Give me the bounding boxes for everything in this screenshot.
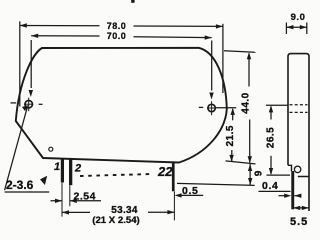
svg-text:70.0: 70.0 bbox=[107, 31, 127, 41]
svg-text:26.5: 26.5 bbox=[265, 127, 276, 148]
svg-text:9: 9 bbox=[253, 170, 264, 176]
svg-text:(21 X 2.54): (21 X 2.54) bbox=[92, 215, 139, 226]
svg-text:2-3.6: 2-3.6 bbox=[6, 178, 34, 192]
svg-text:22: 22 bbox=[157, 164, 173, 179]
svg-text:2: 2 bbox=[74, 163, 81, 175]
svg-text:44.0: 44.0 bbox=[241, 92, 252, 113]
svg-text:5.5: 5.5 bbox=[290, 216, 308, 228]
svg-text:9.0: 9.0 bbox=[291, 12, 306, 23]
svg-text:0.5: 0.5 bbox=[182, 185, 198, 197]
svg-text:1: 1 bbox=[54, 161, 60, 173]
svg-text:0.4: 0.4 bbox=[262, 180, 278, 192]
svg-text:2.54: 2.54 bbox=[74, 191, 96, 203]
svg-text:78.0: 78.0 bbox=[107, 21, 127, 31]
svg-text:21.5: 21.5 bbox=[225, 125, 236, 146]
